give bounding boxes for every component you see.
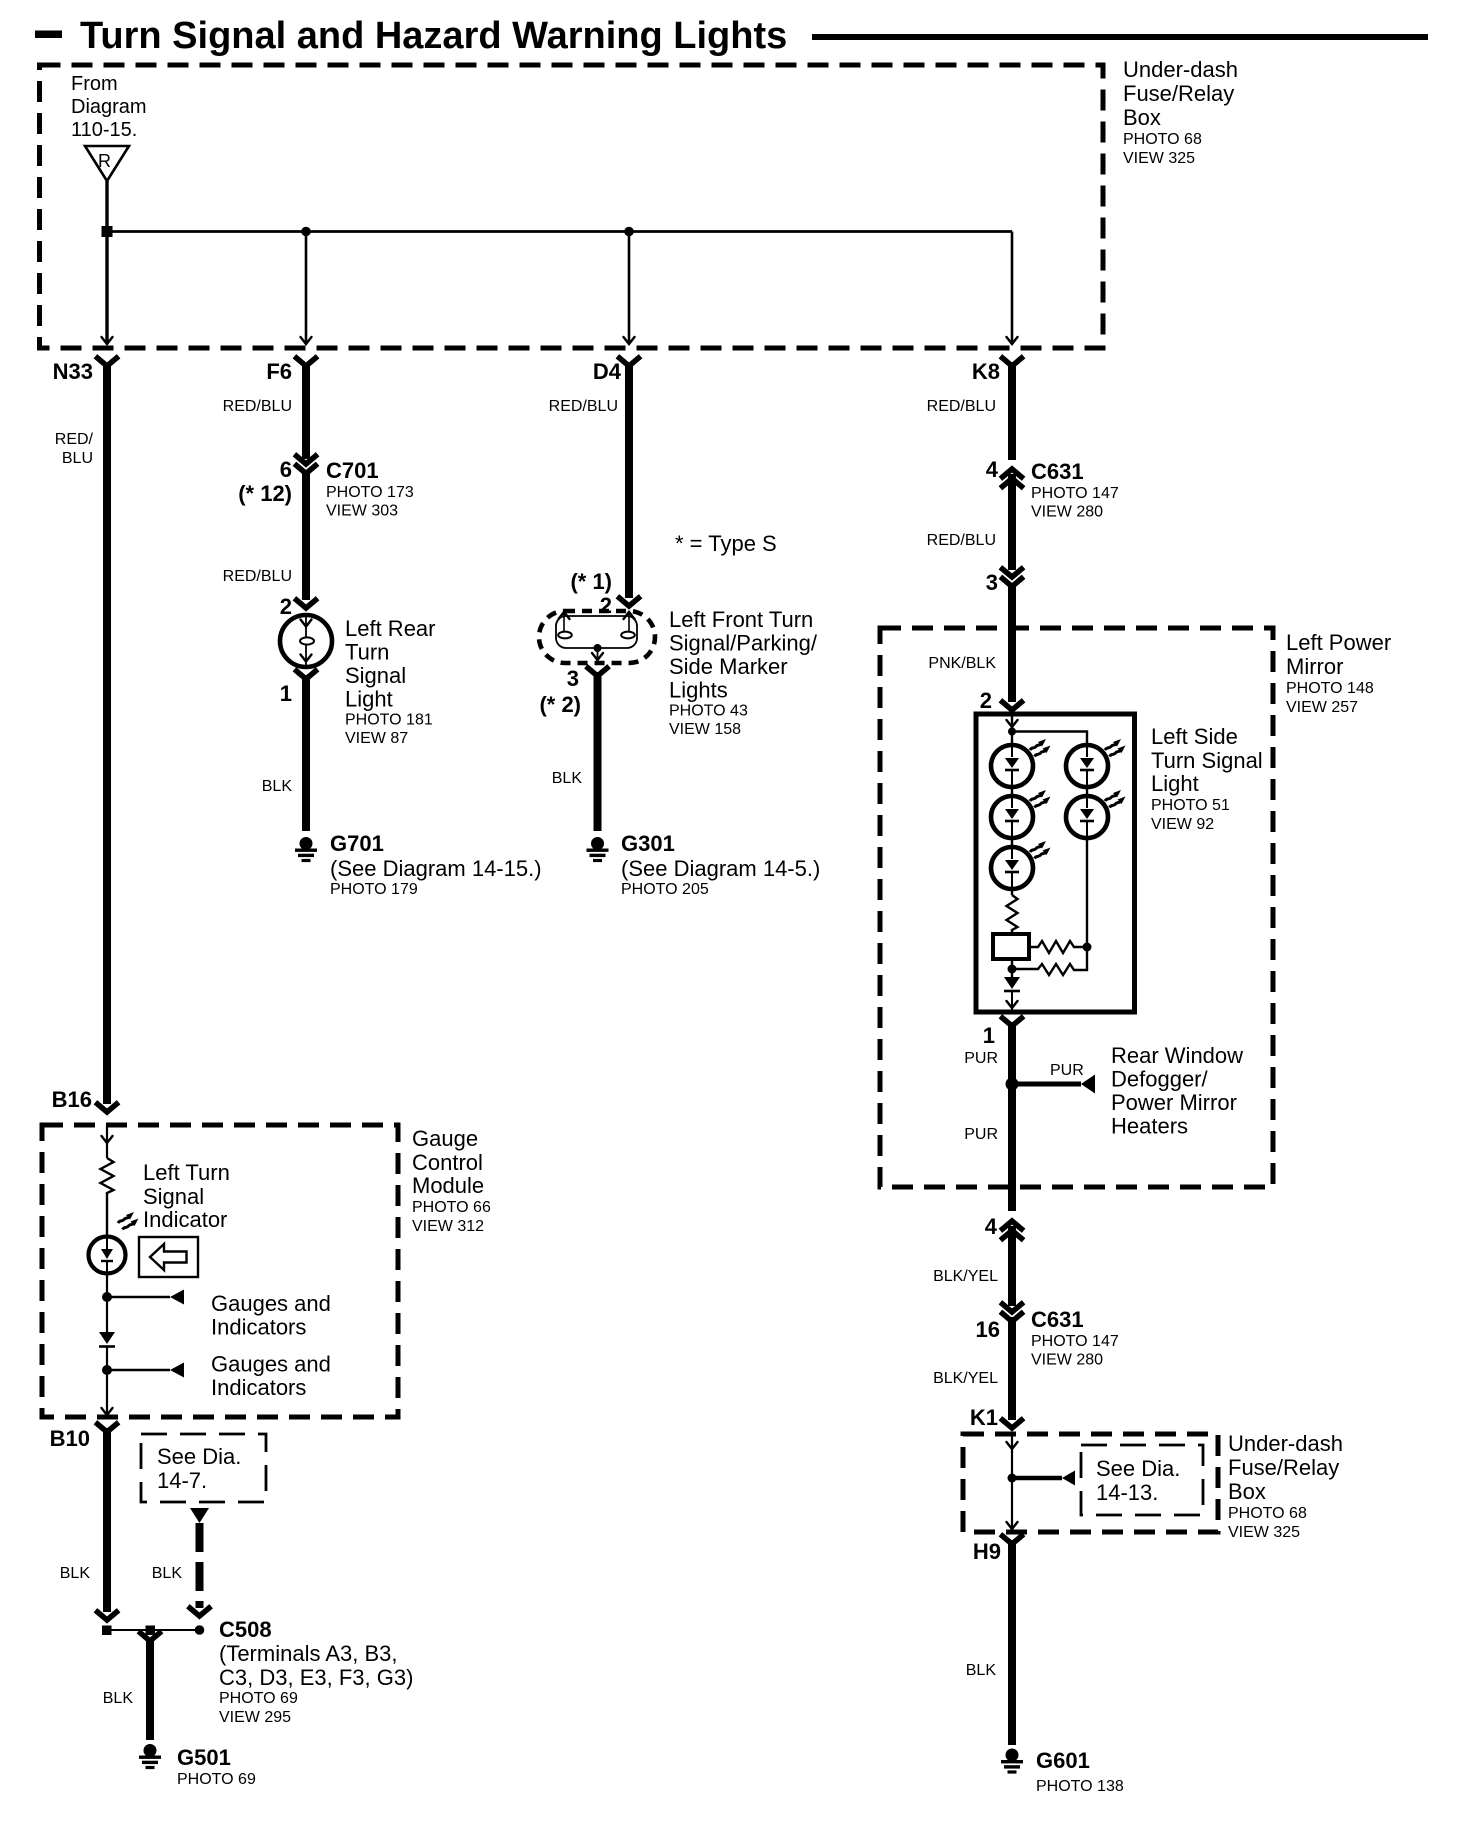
svg-text:Signal: Signal bbox=[143, 1184, 204, 1209]
svg-text:PHOTO 68: PHOTO 68 bbox=[1123, 131, 1202, 148]
terminal B16 bbox=[52, 1087, 117, 1112]
svg-text:G501: G501 bbox=[177, 1745, 231, 1770]
wire H9 to G601 (BLK) bbox=[966, 1540, 1012, 1745]
svg-text:F6: F6 bbox=[266, 359, 292, 384]
ground G601 bbox=[1001, 1748, 1124, 1795]
svg-text:PHOTO 147: PHOTO 147 bbox=[1031, 485, 1119, 502]
terminal H9 bbox=[973, 1536, 1022, 1564]
wire C508 to G501 (BLK) bbox=[103, 1633, 160, 1740]
resistor R2 (horizontal) bbox=[1029, 941, 1092, 953]
node R (from-diagram triangle) bbox=[85, 146, 129, 181]
label: C508 terminals bbox=[219, 1617, 413, 1726]
label: Rear Window Defogger/Power Mirror Heaters bbox=[1111, 1043, 1243, 1139]
label: Left Front Turn Signal/Parking/Side Marker Lights bbox=[669, 607, 818, 738]
LED D4 bbox=[1066, 790, 1126, 838]
svg-text:Left Side: Left Side bbox=[1151, 724, 1238, 749]
svg-text:See Dia.: See Dia. bbox=[1096, 1456, 1180, 1481]
wire: bus drop to D4 bbox=[624, 232, 635, 345]
svg-text:Gauge: Gauge bbox=[412, 1126, 478, 1151]
svg-text:PHOTO 43: PHOTO 43 bbox=[669, 703, 748, 720]
svg-text:Under-dash: Under-dash bbox=[1123, 57, 1238, 82]
svg-text:1: 1 bbox=[983, 1023, 995, 1048]
svg-text:BLK/YEL: BLK/YEL bbox=[933, 1370, 998, 1387]
svg-text:BLK: BLK bbox=[966, 1662, 997, 1679]
svg-text:14-7.: 14-7. bbox=[157, 1468, 207, 1493]
wire B10 to C508 (BLK) bbox=[60, 1428, 117, 1620]
wire pin4 to pin16 (BLK/YEL) bbox=[933, 1226, 1012, 1306]
wire LED to junction bbox=[106, 1274, 108, 1332]
svg-text:PUR: PUR bbox=[1050, 1062, 1084, 1079]
junction node at D4 feed bbox=[624, 227, 634, 237]
wire from triangle R to bus bbox=[105, 181, 108, 232]
svg-text:PUR: PUR bbox=[964, 1126, 998, 1143]
svg-text:PHOTO 173: PHOTO 173 bbox=[326, 484, 414, 501]
junction node gauges 2 bbox=[102, 1365, 112, 1375]
svg-text:2: 2 bbox=[600, 593, 612, 618]
svg-text:RED/BLU: RED/BLU bbox=[223, 568, 292, 585]
flasher unit box bbox=[993, 934, 1029, 959]
under-dash fuse/relay box (bottom, dashed) bbox=[963, 1434, 1218, 1532]
svg-text:VIEW 303: VIEW 303 bbox=[326, 503, 398, 520]
svg-text:Indicators: Indicators bbox=[211, 1375, 306, 1400]
svg-text:Turn: Turn bbox=[345, 640, 389, 665]
wire pin16 to K1 (BLK/YEL) bbox=[933, 1317, 1021, 1430]
svg-text:VIEW 295: VIEW 295 bbox=[219, 1709, 291, 1726]
connector C631 pin 4 (lower) bbox=[985, 1214, 1022, 1239]
ground G701 bbox=[295, 831, 542, 898]
svg-text:Light: Light bbox=[345, 687, 393, 712]
mirror pin 1 connector bbox=[983, 1018, 1022, 1048]
svg-text:14-13.: 14-13. bbox=[1096, 1480, 1158, 1505]
junction node at N33 feed (square) bbox=[102, 226, 113, 237]
title: Turn Signal and Hazard Warning Lights bbox=[35, 15, 1428, 57]
svg-text:D4: D4 bbox=[593, 359, 622, 384]
svg-text:PHOTO 69: PHOTO 69 bbox=[219, 1690, 298, 1707]
branch to rear window defogger bbox=[1012, 1062, 1095, 1094]
svg-text:Box: Box bbox=[1228, 1479, 1266, 1504]
svg-text:16: 16 bbox=[976, 1317, 1000, 1342]
junction node gauges 1 bbox=[102, 1292, 112, 1302]
svg-text:Rear Window: Rear Window bbox=[1111, 1043, 1243, 1068]
LED D5 bbox=[991, 841, 1051, 889]
connector C701 pin 6 bbox=[238, 456, 414, 520]
svg-text:VIEW 325: VIEW 325 bbox=[1123, 150, 1195, 167]
svg-text:Light: Light bbox=[1151, 771, 1199, 796]
svg-text:Turn Signal and Hazard Warning: Turn Signal and Hazard Warning Lights bbox=[80, 15, 787, 57]
Left Side Turn Signal Light box bbox=[976, 714, 1135, 1012]
svg-text:VIEW 312: VIEW 312 bbox=[412, 1218, 484, 1235]
svg-text:Defogger/: Defogger/ bbox=[1111, 1067, 1209, 1092]
turn arrow indicator icon bbox=[139, 1237, 198, 1277]
svg-text:C508: C508 bbox=[219, 1617, 272, 1642]
svg-text:B10: B10 bbox=[50, 1426, 90, 1451]
svg-text:(* 1): (* 1) bbox=[570, 569, 612, 594]
label: Under-dash Fuse/Relay Box (top right) bbox=[1123, 57, 1238, 167]
svg-text:VIEW 280: VIEW 280 bbox=[1031, 504, 1103, 521]
resistor R3 (horizontal) bbox=[1016, 947, 1087, 975]
svg-text:PHOTO 69: PHOTO 69 bbox=[177, 1771, 256, 1788]
wire C631 pin4 to pin3 (RED/BLU) bbox=[927, 474, 1012, 570]
svg-text:Module: Module bbox=[412, 1173, 484, 1198]
svg-text:(* 12): (* 12) bbox=[238, 481, 292, 506]
svg-text:PHOTO 179: PHOTO 179 bbox=[330, 881, 418, 898]
svg-text:G601: G601 bbox=[1036, 1748, 1090, 1773]
ground G501 bbox=[139, 1744, 256, 1788]
svg-text:PUR: PUR bbox=[964, 1050, 998, 1067]
svg-text:C631: C631 bbox=[1031, 1307, 1084, 1332]
junction node at F6 feed bbox=[301, 227, 311, 237]
wire: bus drop to F6 bbox=[301, 232, 312, 345]
label: Left Turn Signal Indicator bbox=[143, 1160, 230, 1232]
wire F6 to C701 (RED/BLU) bbox=[223, 364, 306, 459]
svg-text:BLK: BLK bbox=[262, 778, 293, 795]
svg-text:RED/BLU: RED/BLU bbox=[549, 398, 618, 415]
bus wire inside fuse box bbox=[107, 230, 1012, 233]
junction node PUR bbox=[1006, 1078, 1019, 1091]
gauge control module box (dashed) bbox=[42, 1125, 398, 1417]
label: Gauges and Indicators 2 bbox=[211, 1352, 331, 1401]
connector C631 pin 16 bbox=[976, 1304, 1119, 1369]
wire D4 to front lamp (RED/BLU) bbox=[549, 364, 639, 618]
wire below left LEDs bbox=[1011, 838, 1013, 895]
svg-text:Gauges and: Gauges and bbox=[211, 1291, 331, 1316]
LED D1 bbox=[991, 739, 1051, 787]
svg-text:110-15.: 110-15. bbox=[71, 119, 137, 141]
svg-text:Under-dash: Under-dash bbox=[1228, 1431, 1343, 1456]
svg-text:R: R bbox=[98, 151, 111, 171]
terminal F6 bbox=[266, 358, 315, 384]
svg-text:PHOTO 138: PHOTO 138 bbox=[1036, 1778, 1124, 1795]
svg-text:Gauges and: Gauges and bbox=[211, 1352, 331, 1377]
svg-text:BLU: BLU bbox=[62, 450, 93, 467]
svg-text:Left Rear: Left Rear bbox=[345, 616, 436, 641]
connector C631 pin 4 / pin 3 bbox=[986, 457, 1119, 521]
svg-text:K1: K1 bbox=[970, 1405, 998, 1430]
see dia 14-7 box bbox=[141, 1434, 266, 1502]
diode in module bbox=[99, 1332, 115, 1347]
svg-text:Turn Signal: Turn Signal bbox=[1151, 748, 1263, 773]
svg-text:RED/BLU: RED/BLU bbox=[927, 398, 996, 415]
svg-text:H9: H9 bbox=[973, 1539, 1001, 1564]
svg-text:PHOTO 68: PHOTO 68 bbox=[1228, 1505, 1307, 1522]
svg-text:Fuse/Relay: Fuse/Relay bbox=[1123, 81, 1234, 106]
wire below flasher bbox=[1008, 959, 1017, 977]
svg-text:PHOTO 147: PHOTO 147 bbox=[1031, 1333, 1119, 1350]
svg-text:PHOTO 205: PHOTO 205 bbox=[621, 881, 709, 898]
junction wire C508 bbox=[102, 1625, 204, 1635]
label: Left Rear Turn Signal Light bbox=[345, 616, 436, 747]
connector pin 3 bbox=[986, 569, 1022, 595]
svg-text:Indicators: Indicators bbox=[211, 1315, 306, 1340]
wire N33 to B16 (RED/BLU) bbox=[55, 364, 107, 1104]
terminal B10 bbox=[50, 1424, 117, 1451]
terminal D4 bbox=[593, 358, 639, 384]
wire front lamp pin 3 to G301 (BLK) bbox=[539, 666, 607, 831]
branch to gauges and indicators 1 bbox=[107, 1290, 184, 1305]
svg-text:Signal/Parking/: Signal/Parking/ bbox=[669, 631, 818, 656]
under-dash fuse/relay box (top, dashed) bbox=[40, 65, 1104, 348]
svg-text:Lights: Lights bbox=[669, 678, 728, 703]
svg-text:(* 2): (* 2) bbox=[539, 692, 581, 717]
svg-text:BLK: BLK bbox=[152, 1565, 183, 1582]
svg-text:C631: C631 bbox=[1031, 459, 1084, 484]
wire between LEDs bbox=[1011, 787, 1013, 796]
lamp: Left Front Turn Signal/Parking/Side Marker Lights bbox=[539, 611, 655, 663]
LED D3 bbox=[991, 790, 1051, 838]
svg-text:RED/: RED/ bbox=[55, 431, 94, 448]
svg-text:G301: G301 bbox=[621, 831, 675, 856]
svg-text:PHOTO 148: PHOTO 148 bbox=[1286, 680, 1374, 697]
svg-text:2: 2 bbox=[280, 594, 292, 619]
label: Left Power Mirror bbox=[1286, 630, 1391, 716]
terminal K8 bbox=[972, 358, 1022, 384]
svg-text:2: 2 bbox=[980, 688, 992, 713]
svg-text:3: 3 bbox=[567, 666, 579, 691]
ground G301 bbox=[587, 831, 821, 898]
svg-text:* = Type S: * = Type S bbox=[675, 531, 777, 556]
svg-text:Left Front Turn: Left Front Turn bbox=[669, 607, 813, 632]
svg-text:VIEW 158: VIEW 158 bbox=[669, 721, 741, 738]
label: Gauges and Indicators 1 bbox=[211, 1291, 331, 1340]
wire K8 to C631 pin 4 (RED/BLU) bbox=[927, 364, 1012, 460]
svg-text:Side Marker: Side Marker bbox=[669, 654, 788, 679]
svg-text:1: 1 bbox=[280, 681, 292, 706]
svg-text:BLK: BLK bbox=[60, 1565, 91, 1582]
svg-text:RED/BLU: RED/BLU bbox=[927, 532, 996, 549]
svg-text:PHOTO 66: PHOTO 66 bbox=[412, 1199, 491, 1216]
svg-text:VIEW 325: VIEW 325 bbox=[1228, 1524, 1300, 1541]
svg-text:Power Mirror: Power Mirror bbox=[1111, 1090, 1237, 1115]
svg-text:Left Power: Left Power bbox=[1286, 630, 1391, 655]
resistor R1 (vertical) bbox=[1007, 895, 1018, 934]
svg-text:N33: N33 bbox=[53, 359, 93, 384]
left power mirror box (dashed) bbox=[880, 628, 1273, 1187]
label: Left Side Turn Signal Light bbox=[1151, 724, 1263, 833]
svg-text:Left Turn: Left Turn bbox=[143, 1160, 230, 1185]
branch to gauges and indicators 2 bbox=[107, 1363, 184, 1378]
dashed wire from see dia 14-7 (BLK) bbox=[152, 1508, 209, 1616]
LED D2 bbox=[1066, 739, 1126, 787]
svg-text:VIEW 257: VIEW 257 bbox=[1286, 699, 1358, 716]
svg-text:6: 6 bbox=[280, 457, 292, 482]
wire: bus drop to K8 bbox=[1007, 232, 1018, 345]
svg-text:PNK/BLK: PNK/BLK bbox=[928, 655, 996, 672]
svg-text:PHOTO 181: PHOTO 181 bbox=[345, 712, 433, 729]
wire through bottom fuse box bbox=[1007, 1434, 1018, 1532]
terminal N33 bbox=[53, 358, 117, 384]
svg-text:RED/BLU: RED/BLU bbox=[223, 398, 292, 415]
label: From Diagram 110-15. bbox=[71, 73, 147, 141]
wire into module bbox=[102, 1125, 113, 1158]
svg-text:BLK: BLK bbox=[103, 1690, 134, 1707]
svg-text:K8: K8 bbox=[972, 359, 1000, 384]
svg-text:Signal: Signal bbox=[345, 663, 406, 688]
lamp: Left Rear Turn Signal Light bbox=[280, 615, 332, 667]
wire bulb pin 1 to G701 (BLK) bbox=[262, 671, 316, 831]
svg-text:(Terminals A3, B3,: (Terminals A3, B3, bbox=[219, 1641, 398, 1666]
wire pin3 to mirror pin 2 (PNK/BLK) bbox=[928, 583, 1021, 713]
svg-text:(See Diagram 14-15.): (See Diagram 14-15.) bbox=[330, 856, 542, 881]
svg-text:Diagram: Diagram bbox=[71, 96, 147, 118]
wire: bus drop to N33 bbox=[102, 232, 113, 345]
diode in LED box bbox=[1004, 977, 1020, 1012]
svg-text:G701: G701 bbox=[330, 831, 384, 856]
resistor R4 (vertical in module) bbox=[101, 1158, 114, 1237]
svg-text:Box: Box bbox=[1123, 105, 1161, 130]
wire pin1 to junction (PUR) bbox=[964, 1022, 1012, 1211]
svg-text:C701: C701 bbox=[326, 458, 379, 483]
svg-text:4: 4 bbox=[986, 457, 999, 482]
see dia 14-13 box bbox=[1081, 1445, 1203, 1515]
svg-text:Fuse/Relay: Fuse/Relay bbox=[1228, 1455, 1339, 1480]
svg-text:Indicator: Indicator bbox=[143, 1207, 227, 1232]
svg-text:BLK/YEL: BLK/YEL bbox=[933, 1268, 998, 1285]
label: Under-dash Fuse/Relay Box (bottom) bbox=[1228, 1431, 1343, 1541]
svg-text:4: 4 bbox=[985, 1214, 998, 1239]
wire into LED array bbox=[1007, 713, 1088, 745]
wire diode to junction 2 bbox=[106, 1346, 108, 1416]
svg-text:(See Diagram 14-5.): (See Diagram 14-5.) bbox=[621, 856, 820, 881]
svg-text:From: From bbox=[71, 73, 118, 95]
wire right LED column down bbox=[1086, 838, 1088, 947]
svg-text:Heaters: Heaters bbox=[1111, 1114, 1188, 1139]
svg-text:VIEW 92: VIEW 92 bbox=[1151, 816, 1214, 833]
svg-text:VIEW 280: VIEW 280 bbox=[1031, 1352, 1103, 1369]
arrow exiting module bbox=[102, 1408, 113, 1415]
svg-text:Control: Control bbox=[412, 1150, 483, 1175]
svg-text:BLK: BLK bbox=[552, 770, 583, 787]
label: Gauge Control Module bbox=[412, 1126, 491, 1235]
svg-text:B16: B16 bbox=[52, 1087, 92, 1112]
LED left turn signal indicator bbox=[89, 1212, 139, 1274]
svg-text:VIEW 87: VIEW 87 bbox=[345, 730, 408, 747]
branch to see dia 14-13 bbox=[1012, 1471, 1075, 1486]
svg-text:Mirror: Mirror bbox=[1286, 654, 1343, 679]
svg-text:3: 3 bbox=[986, 570, 998, 595]
svg-text:C3, D3, E3, F3, G3): C3, D3, E3, F3, G3) bbox=[219, 1665, 413, 1690]
svg-text:See Dia.: See Dia. bbox=[157, 1444, 241, 1469]
svg-text:PHOTO 51: PHOTO 51 bbox=[1151, 797, 1230, 814]
wire C701 to bulb pin 2 (RED/BLU) bbox=[223, 470, 316, 619]
